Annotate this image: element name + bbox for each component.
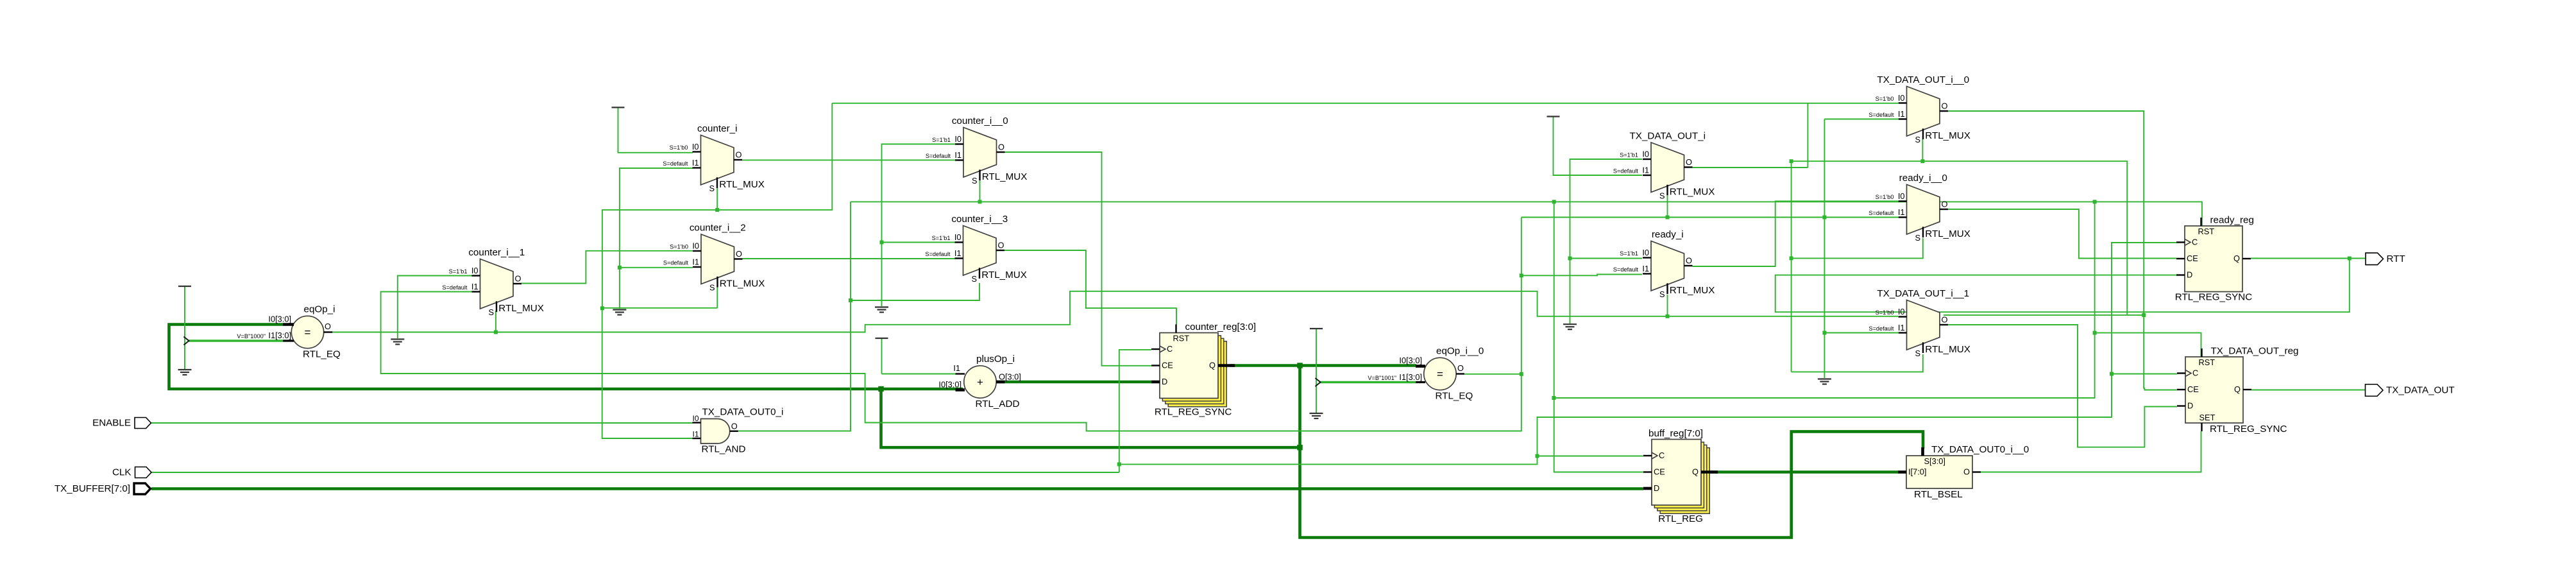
comparator eqOp_i__0 — [1424, 357, 1456, 390]
wire select vertical down to AND I1 — [602, 308, 693, 438]
svg-text:RTL_EQ: RTL_EQ — [1436, 391, 1473, 402]
svg-text:S: S — [1915, 233, 1920, 243]
svg-text:RTL_MUX: RTL_MUX — [498, 303, 544, 314]
wire counter_i__1 O up to counter_i__2 I0 — [521, 251, 693, 284]
svg-text:counter_i: counter_i — [697, 123, 737, 134]
node junction counter_i__3 I0 tap — [880, 241, 884, 245]
wire TX_DATA_OUT_i__0 O down to TX_DATA_OUT_reg CE — [1948, 111, 2177, 390]
svg-text:O: O — [1942, 315, 1948, 325]
svg-text:O[3:0]: O[3:0] — [999, 372, 1021, 382]
svg-text:counter_i__2: counter_i__2 — [690, 223, 746, 234]
wire CLK main line — [151, 472, 1119, 473]
svg-text:RTL_REG_SYNC: RTL_REG_SYNC — [2175, 292, 2252, 303]
wire TX_DATA_OUT_i__1 I1 line — [1824, 332, 1898, 334]
svg-text:S=default: S=default — [1868, 112, 1894, 118]
node junction TX__1 I1 rail tap — [1822, 216, 1826, 219]
power bar eqOp_i constant — [178, 286, 191, 287]
svg-text:I1: I1 — [1642, 264, 1649, 273]
svg-text:O: O — [1457, 363, 1464, 373]
svg-text:S: S — [1659, 289, 1665, 299]
svg-text:I0: I0 — [954, 134, 962, 144]
wire TX__0 S stub down — [1922, 139, 1923, 161]
svg-text:O: O — [731, 421, 738, 431]
wire eqOp_i I0 bus loop from counter bus — [169, 325, 963, 390]
bus selector TX_DATA_OUT0_i__0 — [1906, 456, 1972, 488]
svg-text:V=B"1001": V=B"1001" — [1368, 375, 1396, 381]
wire CLK branch TX_DATA_OUT_reg C — [2112, 374, 2177, 375]
svg-text:I1: I1 — [954, 248, 962, 258]
node junction counter_i__3 S line — [849, 298, 852, 302]
svg-text:TX_DATA_OUT_i: TX_DATA_OUT_i — [1630, 131, 1706, 142]
svg-text:C: C — [2192, 368, 2198, 378]
wire TX_BUFFER bus to buff_reg D — [151, 487, 1643, 490]
svg-text:S=default: S=default — [1868, 210, 1894, 216]
svg-text:S=default: S=default — [926, 153, 951, 159]
svg-text:S=1’b0: S=1’b0 — [670, 244, 688, 250]
svg-text:I0: I0 — [471, 266, 479, 275]
wire CLK riser to counter_reg C — [1119, 350, 1151, 472]
node junction TX__0 S — [1920, 159, 1924, 163]
wire ready_reg Q to RTT — [2251, 258, 2365, 259]
wire eqOp_i__0 O to default-select chain riser — [1464, 374, 1521, 375]
wire riser x2371.8 up to TX_DATA_OUT_i S line — [1521, 218, 1522, 374]
svg-text:TX_DATA_OUT0_i__0: TX_DATA_OUT0_i__0 — [1931, 444, 2029, 455]
svg-text:I1: I1 — [471, 282, 479, 291]
svg-text:eqOp_i__0: eqOp_i__0 — [1436, 345, 1484, 356]
wire constant rail for eqOp_i — [184, 286, 185, 370]
wire counter_i row select line — [602, 103, 832, 309]
wire TX_DATA_OUT_i S stub down — [1667, 196, 1668, 218]
svg-text:S=default: S=default — [663, 260, 689, 266]
svg-text:S: S — [709, 184, 715, 193]
register counter_reg[3:0] — [1168, 341, 1226, 407]
wire TX_DATA_OUT_i__1 O to TX_DATA_OUT_reg D — [1948, 325, 2177, 447]
svg-text:S=1’b1: S=1’b1 — [1620, 250, 1638, 257]
node junction y620 tap on buff CE drop — [1552, 396, 1555, 400]
svg-text:buff_reg[7:0]: buff_reg[7:0] — [1648, 428, 1703, 439]
wire TX_DATA_OUT_i__0 S line — [1792, 161, 2128, 315]
wire TX_DATA_OUT_i I0 from grounded rail — [1570, 159, 1643, 323]
input port CLK — [135, 467, 152, 478]
svg-text:S=1’b1: S=1’b1 — [932, 235, 951, 241]
svg-text:S=default: S=default — [663, 160, 688, 167]
wire counter_i__2 S stub down — [716, 286, 718, 308]
wire TX_DATA_OUT_i__0 I1 line — [1824, 119, 1898, 120]
svg-text:D: D — [1654, 483, 1659, 493]
svg-text:I1: I1 — [692, 257, 699, 267]
and gate TX_DATA_OUT0_i — [701, 419, 730, 444]
svg-text:I1: I1 — [1898, 109, 1905, 119]
ground eqOp_i constant rail — [178, 369, 192, 370]
wire counter_i__1 I1 long default line to eqOp_i__0 net — [381, 292, 1521, 431]
node junction CLK at TX reg C — [2110, 372, 2114, 376]
wire Q bus branch down right to RTL_BSEL S — [1300, 366, 1924, 538]
wire CLK branch right y723 — [1119, 456, 1538, 465]
wire counter_i__3 O to counter_reg RST — [1004, 250, 1176, 325]
ground TX/ready I0 rail — [1563, 323, 1577, 325]
wire CLK riser to right regs — [1538, 243, 2177, 456]
svg-text:I0: I0 — [1642, 248, 1649, 257]
adder plusOp_i — [964, 366, 996, 398]
wire eqOp_i I1 constant bus — [189, 340, 283, 342]
svg-text:S: S — [1915, 349, 1920, 358]
wire y490.9 line join — [1944, 314, 2144, 316]
svg-text:I0: I0 — [1642, 150, 1649, 159]
svg-text:O: O — [1686, 256, 1692, 266]
svg-text:S: S — [972, 176, 978, 185]
svg-text:RST: RST — [2198, 227, 2215, 236]
node junction select vertical x938.9 — [600, 306, 604, 310]
node junction TX__0 O at y490.9 — [2142, 313, 2146, 317]
svg-text:I1: I1 — [692, 430, 699, 439]
wire ready_i__0 O to ready_reg CE — [1948, 209, 2176, 259]
svg-text:CE: CE — [2187, 384, 2199, 394]
svg-text:S=default: S=default — [442, 284, 468, 291]
svg-text:CE: CE — [1654, 467, 1665, 477]
svg-text:I0: I0 — [692, 142, 699, 151]
wire T-bar to TX_DATA_OUT_i I1 — [1554, 117, 1643, 176]
svg-text:ENABLE: ENABLE — [92, 418, 131, 429]
svg-text:=: = — [305, 327, 311, 339]
input port TX_BUFFER[7:0] — [134, 483, 151, 494]
wire counter_i__0 I0 to ground rail x1374.5 — [882, 144, 956, 307]
svg-text:RST: RST — [1173, 334, 1190, 343]
svg-text:CE: CE — [1162, 361, 1173, 370]
mux TX_DATA_OUT_i — [1651, 142, 1684, 193]
node junction eqOp_i__0 O riser x2371.8 — [1520, 372, 1523, 376]
ground counter_i__0 I0 rail — [875, 306, 888, 307]
svg-text:RTL_ADD: RTL_ADD — [976, 399, 1020, 409]
svg-text:S=1’b0: S=1’b0 — [1876, 194, 1894, 200]
svg-text:ready_i: ready_i — [1652, 229, 1684, 240]
node junction counter_i__1 S — [494, 331, 498, 334]
svg-text:TX_DATA_OUT: TX_DATA_OUT — [2386, 385, 2455, 396]
svg-text:CE: CE — [2187, 254, 2198, 263]
svg-text:I1: I1 — [1898, 207, 1905, 217]
wire TX_DATA_OUT_reg Q to port — [2251, 390, 2365, 391]
ground eqOp_i__0 constant rail — [1310, 413, 1323, 414]
wire counter_i__0 O down to counter_reg CE — [1004, 152, 1151, 366]
svg-text:RTL_REG: RTL_REG — [1658, 513, 1703, 524]
svg-text:S=default: S=default — [1613, 168, 1639, 175]
wire counter_i O to counter_i__0 I1 — [742, 159, 955, 160]
wire plusOp I1 from T-bar — [882, 374, 964, 375]
wire counter_i__2 I1 from rail — [620, 267, 693, 268]
svg-text:I1: I1 — [954, 150, 962, 160]
svg-text:V=B"1000": V=B"1000" — [237, 333, 266, 340]
wire long select line y314.4 to ready_reg RST — [851, 202, 2202, 226]
svg-text:RTL_AND: RTL_AND — [702, 444, 746, 455]
svg-text:S=default: S=default — [1613, 266, 1639, 273]
register TX_DATA_OUT_reg — [2185, 357, 2243, 423]
svg-text:I0: I0 — [1898, 307, 1905, 316]
svg-text:I1: I1 — [692, 158, 699, 168]
wire CLK to buff_reg C — [1538, 456, 1644, 457]
svg-text:S: S — [971, 274, 977, 284]
svg-text:C: C — [1167, 344, 1173, 354]
svg-text:counter_reg[3:0]: counter_reg[3:0] — [1185, 322, 1257, 332]
svg-text:O: O — [736, 249, 742, 259]
svg-text:O: O — [1942, 101, 1948, 111]
node junction counter_i S — [715, 208, 719, 212]
svg-text:RST: RST — [2199, 357, 2216, 367]
node junction counter_i__0 S — [978, 200, 982, 203]
svg-text:O: O — [325, 322, 331, 331]
node junction ready_i I0 tap — [1568, 257, 1572, 261]
wire buff_reg CE drop from select line — [1554, 202, 1643, 472]
wire eqOp_i__0 I1 constant bus — [1320, 381, 1416, 384]
power bar plusOp constant — [876, 338, 888, 339]
mux counter_i__1 — [480, 259, 514, 309]
wire counter_i__2 S line — [602, 307, 717, 309]
svg-text:counter_i__0: counter_i__0 — [952, 116, 1008, 126]
svg-text:D: D — [2187, 401, 2193, 411]
svg-text:RTL_MUX: RTL_MUX — [1925, 228, 1970, 239]
svg-text:I0[3:0]: I0[3:0] — [1399, 356, 1422, 365]
wire AND O up to counter_i__3 S and select line — [738, 202, 851, 431]
svg-text:O: O — [998, 142, 1004, 152]
svg-text:I1: I1 — [953, 363, 960, 373]
ripper eqOp_i__0 I1 tap — [1316, 378, 1321, 386]
wire counter_i I1 rail down to ground — [620, 168, 693, 309]
svg-text:I1: I1 — [1642, 166, 1649, 175]
svg-text:TX_DATA_OUT_reg: TX_DATA_OUT_reg — [2211, 346, 2299, 357]
wire counter bus branch down to mid trunk — [881, 389, 1300, 447]
node junction rail A at TX__0 S line — [1790, 159, 1793, 163]
wire counter_i__2 O to counter_i__3 I1 — [743, 258, 956, 259]
svg-text:S=1’b0: S=1’b0 — [670, 144, 688, 151]
svg-text:eqOp_i: eqOp_i — [304, 304, 335, 314]
svg-text:I0[3:0]: I0[3:0] — [268, 314, 291, 324]
wire counter_i__1 I0 to ground — [398, 276, 472, 339]
node junction TX_DATA_OUT_i__1 I1 tap — [1822, 331, 1826, 335]
mux TX_DATA_OUT_i__0 — [1907, 87, 1940, 137]
svg-text:TX_BUFFER[7:0]: TX_BUFFER[7:0] — [55, 483, 130, 494]
node junction CLK branch y723 — [1117, 462, 1121, 466]
wire long top line to TX_DATA_OUT_i__0 I0 — [832, 103, 1898, 104]
svg-text:S=1’b1: S=1’b1 — [932, 137, 951, 143]
svg-text:S: S — [1915, 135, 1920, 144]
svg-text:Q: Q — [1692, 467, 1699, 477]
svg-text:S: S — [709, 283, 715, 293]
svg-text:RTL_MUX: RTL_MUX — [1925, 130, 1970, 141]
pin stubs eqOp_i__0 — [1416, 365, 1425, 368]
wire ready_i S stub down — [1667, 295, 1668, 316]
node junction CLK at buff C — [1536, 454, 1539, 458]
svg-text:D: D — [1162, 377, 1167, 386]
svg-text:RTL_MUX: RTL_MUX — [720, 279, 765, 289]
svg-text:I0: I0 — [692, 241, 699, 251]
svg-text:O: O — [736, 150, 742, 160]
svg-text:S=default: S=default — [925, 251, 951, 257]
comparator eqOp_i — [291, 316, 323, 348]
svg-text:I1[3:0]: I1[3:0] — [268, 331, 291, 340]
wire TX_DATA_OUT_i S line y338.5 — [1521, 217, 1898, 218]
mux ready_i__0 — [1907, 185, 1940, 235]
node junction buff CE tap x2422.7 — [1552, 200, 1556, 203]
wire ready_i I0 from rail — [1570, 258, 1643, 259]
svg-text:ready_i__0: ready_i__0 — [1899, 173, 1947, 184]
wire counter_i__0 S stub down — [979, 179, 981, 202]
svg-text:S=1’b1: S=1’b1 — [1620, 152, 1638, 159]
svg-text:TX_DATA_OUT_i__0: TX_DATA_OUT_i__0 — [1877, 74, 1969, 85]
svg-text:I1[3:0]: I1[3:0] — [1399, 372, 1422, 382]
ground rail x2844.4 — [1818, 378, 1831, 379]
wire TX_DATA_OUT_i O line to riser x2818.4 — [1693, 167, 1808, 168]
wire BSEL O to TX_DATA_OUT_reg SET — [1981, 431, 2201, 472]
ground counter_i default rail — [613, 309, 626, 310]
node junction ready_i S — [1666, 314, 1670, 318]
node bus junction x1373.5 on plusOp I0 bus — [878, 386, 884, 392]
wire branch to TX_DATA_OUT_reg RST — [2095, 333, 2201, 357]
input port ENABLE — [135, 418, 151, 429]
svg-text:D: D — [2187, 270, 2192, 280]
wire ready_i O up to ready_i__0 I0 — [1693, 202, 1899, 267]
mux counter_i__2 — [701, 234, 734, 284]
wire counter_i__3 I0 from rail — [882, 242, 956, 243]
svg-text:+: + — [977, 376, 983, 388]
wire T-bar constant for plusOp I1 — [881, 338, 883, 374]
svg-text:I0: I0 — [692, 414, 699, 423]
svg-text:S=1’b0: S=1’b0 — [1876, 96, 1894, 102]
svg-text:SET: SET — [2199, 413, 2216, 422]
node junction TX_DATA_OUT_i S — [1666, 216, 1670, 219]
svg-text:S=1’b0: S=1’b0 — [1876, 309, 1894, 316]
ripper eqOp_i I1 tap — [184, 337, 189, 345]
wire constant rail for eqOp_i__0 — [1316, 329, 1317, 413]
mux ready_i — [1651, 241, 1684, 291]
node junction counter_i__2 I1 tap — [618, 266, 622, 270]
wire select rail A x2792.6 — [1791, 161, 1792, 372]
svg-text:RTT: RTT — [2387, 254, 2405, 264]
svg-text:I0: I0 — [1898, 191, 1905, 201]
svg-text:Q: Q — [1209, 361, 1216, 370]
svg-text:RTL_MUX: RTL_MUX — [719, 179, 765, 190]
wire y620 line from buff CE drop to x3265.6 riser — [1554, 202, 2094, 398]
svg-text:RTL_MUX: RTL_MUX — [982, 171, 1028, 182]
wire counter_i__3 S line — [851, 283, 979, 300]
svg-text:S=1’b1: S=1’b1 — [449, 268, 468, 275]
svg-text:I0: I0 — [1898, 93, 1905, 103]
pin stubs eqOp_i — [283, 323, 294, 326]
svg-text:O: O — [515, 274, 521, 284]
pin stubs plusOp_i — [956, 373, 965, 374]
mux counter_i__0 — [963, 128, 997, 178]
svg-text:RTL_REG_SYNC: RTL_REG_SYNC — [1155, 407, 1232, 418]
svg-text:plusOp_i: plusOp_i — [976, 354, 1015, 365]
wire counter_reg Q bus to eqOp_i__0 I0 — [1230, 364, 1416, 367]
svg-text:TX_DATA_OUT_i__1: TX_DATA_OUT_i__1 — [1877, 288, 1969, 299]
svg-text:S=default: S=default — [1868, 325, 1894, 332]
wire ready_i I1 from default chain — [1521, 275, 1642, 276]
wire buff_reg Q bus to RTL_BSEL I — [1709, 470, 1898, 474]
output port RTT — [2366, 253, 2384, 265]
node junction ready default line — [1520, 273, 1523, 277]
power bar eqOp_i__0 constant — [1310, 328, 1323, 329]
svg-text:CLK: CLK — [112, 467, 131, 478]
mux counter_i__3 — [963, 226, 997, 276]
register ready_reg — [2185, 226, 2242, 292]
svg-text:ready_reg: ready_reg — [2210, 215, 2254, 226]
wire riser TX_DATA_OUT_i O to top line — [1807, 103, 1808, 168]
mux counter_i — [701, 135, 734, 185]
wire TX_DATA_OUT_i__1 S line — [1792, 354, 1923, 372]
node junction TX reg RST branch — [2093, 331, 2097, 335]
wire eqOp_i O long route to ready_i S and TX_DATA_OUT_i__1 I0 — [332, 291, 1898, 332]
wire plusOp_i O bus to counter_reg D — [997, 381, 1152, 384]
node bus junction x2026.5 lower — [1297, 445, 1303, 451]
register buff_reg[7:0] — [1660, 448, 1709, 514]
power bar TX_DATA_OUT_i I1 — [1547, 116, 1560, 117]
svg-text:counter_i__1: counter_i__1 — [468, 247, 525, 258]
mux TX_DATA_OUT_i__1 — [1907, 300, 1940, 350]
svg-text:Q: Q — [2234, 384, 2241, 394]
wire rail x2844.4 TX__0 I1 top corner down to ground — [1824, 119, 1825, 379]
svg-text:I[7:0]: I[7:0] — [1908, 467, 1926, 477]
svg-text:RTL_EQ: RTL_EQ — [303, 349, 341, 360]
svg-text:C: C — [2192, 237, 2198, 247]
svg-text:I0[3:0]: I0[3:0] — [938, 380, 962, 390]
svg-text:=: = — [1437, 368, 1443, 381]
wire RTT feedback loop to ready_reg D — [1775, 259, 2350, 313]
node bus junction on Q bus x2026.5 — [1297, 363, 1303, 368]
wire counter_i S stub down — [716, 187, 718, 210]
svg-text:S[3:0]: S[3:0] — [1924, 456, 1945, 466]
svg-text:counter_i__3: counter_i__3 — [951, 214, 1008, 225]
svg-text:RTL_BSEL: RTL_BSEL — [1914, 489, 1963, 500]
ground counter_i__1 I0 — [391, 338, 404, 340]
svg-text:O: O — [1686, 157, 1692, 167]
wire counter_i__1 S stub down — [495, 311, 496, 332]
svg-text:O: O — [1963, 467, 1970, 477]
svg-text:RTL_MUX: RTL_MUX — [981, 270, 1027, 280]
node junction select to TX reg RST line — [2093, 200, 2097, 203]
node junction RTT feedback — [2348, 257, 2351, 261]
svg-text:RTL_MUX: RTL_MUX — [1670, 285, 1715, 296]
svg-text:O: O — [1942, 200, 1948, 209]
svg-text:RTL_REG_SYNC: RTL_REG_SYNC — [2210, 424, 2287, 435]
svg-text:RTL_MUX: RTL_MUX — [1670, 187, 1715, 198]
output port TX_DATA_OUT — [2366, 384, 2384, 397]
svg-text:S: S — [1659, 191, 1665, 201]
svg-text:C: C — [1659, 451, 1665, 460]
wire ENABLE to AND I0 — [151, 422, 693, 424]
wire ready_i__0 S line — [1792, 238, 1923, 258]
svg-text:TX_DATA_OUT0_i: TX_DATA_OUT0_i — [702, 407, 784, 418]
svg-text:RTL_MUX: RTL_MUX — [1925, 344, 1970, 355]
svg-text:S: S — [488, 307, 494, 317]
svg-text:I0: I0 — [954, 232, 962, 242]
svg-text:I1: I1 — [1898, 323, 1905, 332]
power bar counter_i I0 — [612, 107, 625, 108]
wire top power rail to counter_i I0 — [618, 107, 693, 152]
svg-text:Q: Q — [2233, 254, 2240, 263]
node junction rail A at ready_i__0 S line — [1790, 256, 1793, 260]
svg-text:O: O — [998, 241, 1004, 250]
